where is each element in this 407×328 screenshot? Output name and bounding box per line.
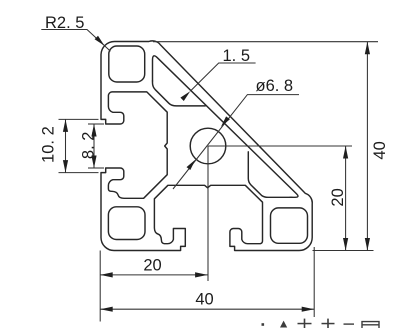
dimension line: right 40 (366, 42, 368, 251)
arrowheads (63, 36, 370, 312)
arrow 10.2 top (63, 119, 68, 131)
svg-text:40: 40 (371, 141, 389, 159)
svg-text:R2. 5: R2. 5 (45, 14, 84, 32)
arrow bottom40 left (100, 307, 113, 312)
arrow 8.2 bottom (91, 156, 96, 169)
bottom-right square cavity (271, 208, 308, 243)
extension lines: 8.2 slot edges (88, 123, 104, 125)
extension line: circle center down to bottom dims (207, 146, 209, 281)
arrow R2.5 leader (95, 36, 105, 46)
dimension line: right 20 (345, 146, 347, 251)
arrow 10.2 bottom (63, 160, 68, 173)
center hole ø6.8 (190, 128, 226, 164)
extension line: right bottom corner down (313, 247, 315, 317)
svg-text:8. 2: 8. 2 (79, 132, 97, 160)
arrow dia upper (221, 116, 230, 127)
extension line: bottom right corner to right dims (313, 250, 374, 252)
bottom-left square cavity (108, 207, 145, 240)
arrow right20 bottom (343, 238, 348, 251)
bottom caption sliver (cut-off text tops) (262, 319, 380, 328)
top-left square cavity (109, 46, 145, 82)
svg-text:1. 5: 1. 5 (223, 47, 251, 65)
arrow bottom20 right (195, 272, 208, 277)
extension line: circle center to right 20 dim (208, 145, 352, 147)
triangle cavity 2 (right) (248, 152, 292, 198)
dimension texts (40, 14, 390, 308)
arrow right40 top (365, 42, 370, 55)
profile outer outline with T-slots (101, 41, 312, 251)
arrow dia lower (187, 160, 196, 171)
extension lines: 10.2 slot edges (59, 118, 99, 120)
leader diameter 6.8 (173, 95, 299, 189)
arrow bottom40 right (302, 307, 315, 312)
svg-text:ø6. 8: ø6. 8 (256, 77, 294, 95)
arrow 8.2 top (91, 124, 96, 137)
dimension line: left 10.2 (65, 119, 67, 172)
leader 1.5 (190, 63, 255, 91)
inner chamfer wall line (1.5 thick) and triangle cavity 1 left edge (153, 56, 298, 197)
dimension line: bottom 40 (100, 308, 314, 310)
arrow right20 top (343, 146, 348, 159)
svg-text:10. 2: 10. 2 (40, 126, 58, 163)
leader R2.5 (41, 30, 110, 52)
triangle cavity 1 lower edges (153, 81, 206, 106)
arrow right40 bottom (365, 238, 370, 251)
dimension line: bottom 20 (100, 274, 207, 276)
svg-text:40: 40 (195, 290, 213, 308)
dimension line: left 8.2 (93, 124, 95, 168)
arrow bottom20 left (100, 272, 113, 277)
extension line: left bottom corner down (99, 251, 101, 322)
arrow 1.5 leader (180, 91, 190, 101)
svg-text:20: 20 (329, 188, 347, 206)
extension line: top edge to right 40 dim (153, 41, 378, 43)
svg-text:20: 20 (143, 257, 161, 275)
